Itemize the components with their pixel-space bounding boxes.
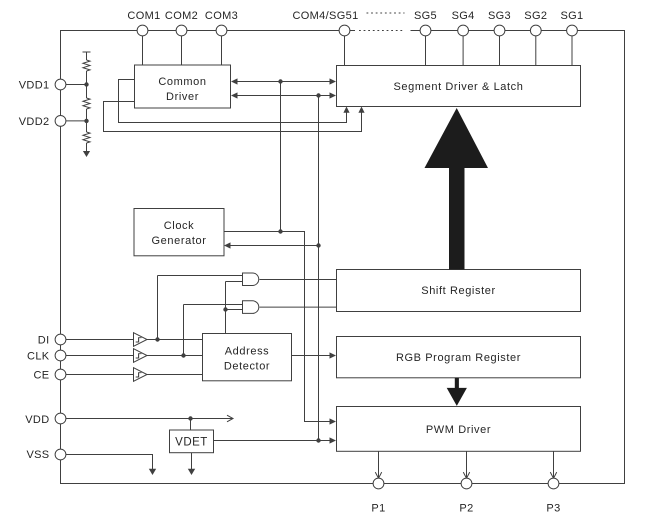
svg-text:COM4/SG51: COM4/SG51 [292,10,358,22]
svg-text:COM1: COM1 [127,10,160,22]
svg-text:Clock: Clock [164,220,195,232]
svg-text:P2: P2 [459,503,473,515]
svg-text:Detector: Detector [224,361,270,373]
svg-text:SG5: SG5 [414,10,437,22]
svg-text:Common: Common [158,76,206,88]
svg-text:COM2: COM2 [165,10,198,22]
svg-text:P1: P1 [371,503,385,515]
svg-text:SG2: SG2 [524,10,547,22]
svg-text:SG4: SG4 [452,10,475,22]
svg-text:P3: P3 [546,503,560,515]
svg-text:Address: Address [225,346,270,358]
svg-text:CE: CE [34,370,50,382]
svg-text:Generator: Generator [152,235,207,247]
svg-text:VDD1: VDD1 [19,80,50,92]
svg-text:CLK: CLK [27,351,50,363]
svg-text:COM3: COM3 [205,10,238,22]
svg-text:SG3: SG3 [488,10,511,22]
svg-text:VDD2: VDD2 [19,116,50,128]
svg-text:VDET: VDET [175,437,208,449]
svg-text:VSS: VSS [26,449,49,461]
svg-text:Shift Register: Shift Register [421,285,495,297]
svg-text:VDD: VDD [25,414,49,426]
svg-text:SG1: SG1 [560,10,583,22]
svg-text:Segment Driver & Latch: Segment Driver & Latch [394,81,524,93]
svg-text:RGB Program Register: RGB Program Register [396,352,521,364]
svg-text:PWM Driver: PWM Driver [426,424,491,436]
svg-text:Driver: Driver [166,91,199,103]
svg-text:DI: DI [38,335,50,347]
